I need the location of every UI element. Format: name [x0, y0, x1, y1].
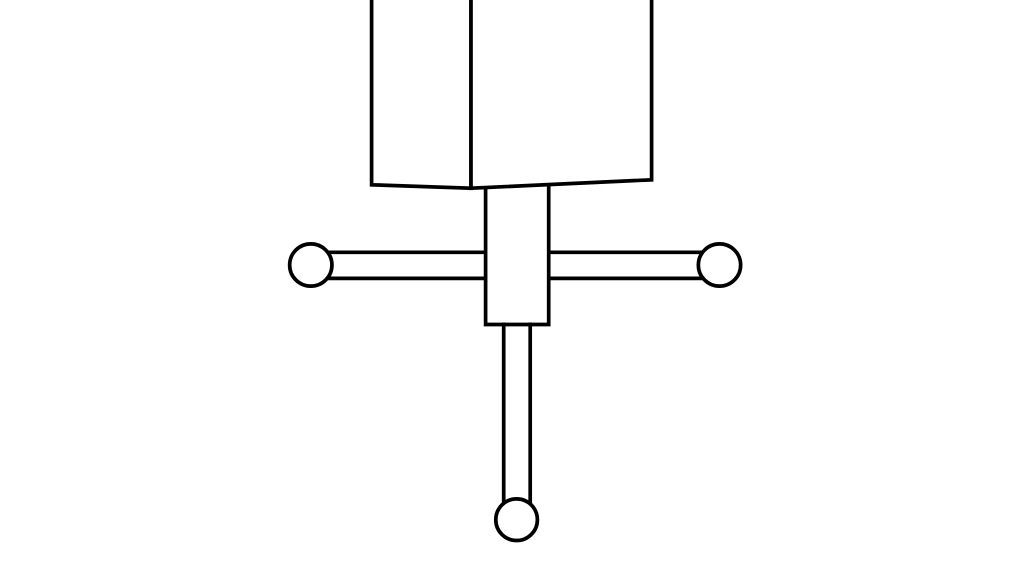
stylus shaft holder	[486, 184, 549, 325]
probe body right face	[471, 0, 652, 188]
crossbar right arm	[546, 252, 716, 278]
right ball tip	[698, 244, 740, 286]
crossbar left arm	[314, 252, 488, 278]
probe body left face	[372, 0, 471, 188]
left ball tip	[290, 244, 332, 286]
bottom ball tip	[496, 499, 538, 541]
stylus stem	[504, 323, 531, 507]
